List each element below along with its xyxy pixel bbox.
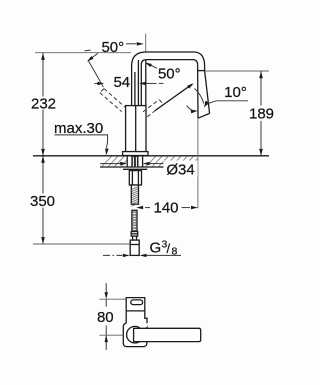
threaded rod [131,185,138,204]
riser right edge [145,60,147,106]
riser line 4 [140,65,142,106]
54 right tail [146,82,157,84]
svg-text:50°: 50° [158,65,181,82]
svg-text:/: / [167,241,171,256]
spout outlet bottom face [198,113,210,118]
extension line 140 right reference [197,118,199,208]
side view upper body [126,298,147,324]
side view slot [131,300,143,305]
side view pivot circle [127,326,144,343]
handle right angle ref line [155,84,192,110]
extension line 80 top [99,298,127,300]
50 deg leader left [89,53,98,60]
faucet body [126,106,146,152]
svg-text:140: 140 [153,200,178,217]
svg-text:350: 350 [30,193,55,210]
extension line bottom 350 reference [33,243,130,245]
svg-text:Ø34: Ø34 [166,161,194,178]
54 left tail [94,82,97,84]
svg-text:189: 189 [249,106,274,123]
svg-text:8: 8 [172,246,178,258]
side view upper body fill [126,298,147,327]
50 deg arc dash [85,49,91,52]
side view lever handle [134,328,201,341]
hole right edge [142,156,144,167]
svg-text:10°: 10° [224,84,247,101]
washer under deck [123,168,147,170]
spout inner bend left [141,60,146,65]
10 deg arc left [187,106,196,111]
side view lower block [123,323,147,346]
svg-text:54: 54 [113,74,130,91]
G3/8 leader right [147,254,182,256]
svg-text:G: G [150,240,162,257]
handle dashed left position [100,89,126,112]
spout tube bottom line [147,60,198,65]
spout outlet seam [198,70,205,72]
label diameter 34 [164,161,198,178]
riser line 2 [134,72,136,106]
svg-text:50°: 50° [101,39,124,56]
spout outlet left edge [197,65,199,118]
mounting nut [129,171,141,185]
base plate [123,152,148,156]
deck hatching [102,156,197,166]
riser line 3 [137,60,139,106]
svg-text:232: 232 [31,96,56,113]
50 deg inner leader [150,65,157,69]
hole left edge [126,156,128,167]
angle arc right [195,89,204,104]
G3/8 leader dashes [103,254,123,256]
svg-text:80: 80 [97,309,114,326]
dimension 80 [105,283,107,292]
10 deg leader [216,100,248,102]
deck bottom line [100,166,198,168]
spout top tube outline [146,52,205,71]
max.30 leader [55,135,108,148]
dimension 189 [260,71,262,105]
hose collar [131,232,138,237]
dimension 350 [42,156,44,194]
flexible hose braid [132,210,137,231]
dimension 140 [145,207,150,209]
handle left angle ref line [88,61,103,88]
side view seam [126,310,145,312]
diameter 34 leader right [148,163,164,165]
dimension 232 [42,53,44,97]
10 deg arc right [205,101,216,106]
diameter 34 leader left [100,163,121,165]
extension line 80 bottom [99,334,123,336]
body seam [135,106,137,152]
hose stem [133,236,137,240]
extension line 189 top reference [205,70,269,72]
50 deg leader right [126,43,137,45]
extension line above spout 50deg reference [145,34,147,53]
spout outer bend left [132,52,146,66]
riser outer left line [131,66,133,106]
handle dashed right position [143,100,163,117]
shank through deck [131,156,138,167]
spout outlet right edge [205,71,210,114]
deck top line [33,155,269,157]
G3/8 threaded end [130,240,139,255]
extension line top 232 reference [35,52,131,54]
